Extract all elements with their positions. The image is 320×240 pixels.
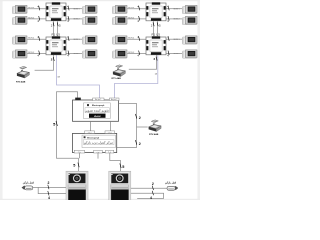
- svg-text:MON 4: MON 4: [28, 7, 34, 9]
- U2 label logo square: [84, 136, 86, 138]
- monitor M1L2 (apartment station): [12, 16, 27, 25]
- tick 4-wire mark left 3-2: [139, 16, 140, 20]
- stub wire below U2 tab a: [78, 153, 80, 158]
- svg-text:MON 2: MON 2: [74, 19, 80, 21]
- monitor M2R1 (apartment station): [82, 36, 97, 45]
- door panel DP1: [66, 171, 88, 200]
- tick 4-wire mark left 1-2: [39, 16, 40, 20]
- power unit P1 (RTV-4AB): [17, 66, 30, 78]
- svg-text:4: 4: [67, 4, 69, 8]
- wire M4L2 to floor box FB4: [127, 52, 146, 54]
- riser wire a between FB1 and FB2: [53, 21, 55, 37]
- svg-text:MON 3: MON 3: [28, 17, 34, 19]
- svg-text:4: 4: [48, 196, 50, 200]
- wire FB2 to power unit P1: [35, 55, 54, 70]
- U2 top tab a: [85, 131, 95, 134]
- svg-text:5: 5: [122, 165, 124, 169]
- tick 2 lower on right drop: [135, 140, 136, 145]
- svg-text:MON 3: MON 3: [128, 52, 134, 54]
- wire M1L1 to floor box FB1: [27, 8, 46, 10]
- tick 5 on left loop: [56, 121, 57, 126]
- svg-text:RTV-4AB: RTV-4AB: [112, 77, 122, 80]
- wire M2R2 to floor box FB2: [66, 52, 82, 54]
- monitor M3R1 (apartment station): [182, 5, 197, 14]
- electric lock L1: [22, 186, 33, 190]
- tick 5 above door panel 2: [120, 163, 121, 168]
- U1 terminal tab 2: [93, 98, 104, 101]
- U2 top tab b: [105, 131, 115, 134]
- tick 4-wire mark right 4-2: [168, 51, 169, 55]
- svg-text:4: 4: [150, 196, 152, 200]
- tick 4 on right loop wire: [152, 191, 153, 195]
- svg-text:MON 2: MON 2: [74, 53, 80, 55]
- wire U1 bottom to U2 tab b: [110, 121, 112, 131]
- stub wire below U2 tab b: [97, 153, 99, 159]
- svg-text:ورودی: ورودی: [87, 132, 91, 134]
- svg-text:4: 4: [67, 35, 69, 39]
- tick on FB4-P2 wire: [156, 57, 157, 61]
- wire M2L2 to floor box FB2: [27, 52, 46, 54]
- wire U1 bottom to U2 tab a: [90, 121, 92, 131]
- riser wire b between FB1 and FB2: [57, 21, 59, 37]
- U1 terminal tab 3: [109, 98, 119, 101]
- svg-text:2: 2: [151, 23, 153, 27]
- lavender riser from FB4 to switcher U1 input 3: [115, 55, 158, 100]
- wire FB4 to power unit P2: [129, 55, 157, 69]
- svg-text:2: 2: [139, 116, 141, 120]
- svg-text:18: 18: [57, 76, 60, 78]
- wire M1R1 to floor box FB1: [66, 8, 82, 10]
- power unit P2 (RTV-4AB): [113, 65, 126, 77]
- monitor M3L2 (apartment station): [112, 16, 127, 25]
- svg-text:MON 4: MON 4: [28, 38, 34, 40]
- U2 product label block: [82, 135, 116, 147]
- wire M1R2 to floor box FB1: [66, 18, 82, 20]
- tick 2 on lock2 wire: [152, 186, 153, 190]
- floor distributor box FB3: [146, 2, 166, 21]
- monitor M1L1 (apartment station): [12, 5, 27, 14]
- tick 4-wire mark left 3-1: [139, 6, 140, 10]
- branch wire to power unit P3: [137, 126, 148, 128]
- monitor M3L1 (apartment station): [112, 5, 127, 14]
- electric lock L2: [167, 186, 178, 190]
- U1 product label block: [84, 103, 111, 119]
- svg-text:4: 4: [137, 54, 139, 58]
- svg-text:5: 5: [53, 122, 56, 127]
- svg-text:MON 2: MON 2: [174, 19, 180, 21]
- svg-text:RTV-4AB: RTV-4AB: [16, 81, 26, 84]
- svg-text:ورودی: ورودی: [108, 132, 112, 134]
- svg-text:4: 4: [37, 54, 39, 58]
- monitor M3R2 (apartment station): [182, 16, 197, 25]
- amplifier unit U2 box: [73, 133, 117, 152]
- wire 4-loop left to DP1: [38, 187, 66, 193]
- tick 4-wire mark right 1-1: [68, 6, 69, 10]
- wire M3L1 to floor box FB3: [127, 8, 146, 10]
- monitor M1R1 (apartment station): [82, 5, 97, 14]
- svg-text:5: 5: [159, 23, 161, 27]
- tick 4-wire mark left 2-1: [39, 36, 40, 40]
- svg-text:F1 L5: F1 L5: [51, 33, 60, 37]
- wire DP2 to lock L2: [131, 187, 167, 189]
- svg-text:MON 3: MON 3: [128, 17, 134, 19]
- door panel DP2: [109, 171, 131, 200]
- power unit P3 (RTV-4AB): [149, 120, 162, 132]
- tick 4-wire mark right 4-1: [168, 36, 169, 40]
- tick on riser a: [153, 22, 154, 26]
- riser wire b between FB3 and FB4: [157, 21, 159, 37]
- svg-text:مرکز کنترل درب بازکن: مرکز کنترل درب بازکن: [84, 141, 114, 145]
- wire M2L1 to floor box FB2: [27, 38, 46, 40]
- svg-text:قفل بازکن: قفل بازکن: [165, 180, 177, 184]
- svg-text:DGHD: DGHD: [94, 116, 101, 118]
- svg-text:14: 14: [155, 74, 158, 76]
- svg-text:F1 L5: F1 L5: [151, 33, 160, 37]
- wire lock L1 to DP1: [33, 186, 66, 188]
- U1 label black model bar: [89, 114, 106, 118]
- tick 4-wire mark left 1-1: [39, 6, 40, 10]
- tick 4-wire mark right 1-2: [68, 16, 69, 20]
- svg-text:Electropeyk: Electropeyk: [92, 104, 105, 107]
- U1 label line2 frame: [85, 108, 109, 113]
- svg-text:MON 4: MON 4: [128, 7, 134, 9]
- monitor M2R2 (apartment station): [82, 50, 97, 59]
- svg-text:Electropeyk: Electropeyk: [87, 136, 100, 139]
- switcher unit U1 box: [73, 100, 119, 121]
- svg-text:4: 4: [137, 19, 139, 23]
- svg-text:2: 2: [51, 58, 53, 62]
- tick 2 upper on right drop: [135, 114, 136, 119]
- wire down to door panel 1: [78, 158, 80, 171]
- wire M1L2 to floor box FB1: [27, 18, 46, 20]
- svg-text:RTV-4AB: RTV-4AB: [149, 133, 159, 136]
- svg-text:MON 1: MON 1: [74, 8, 80, 10]
- svg-text:2: 2: [152, 182, 154, 186]
- monitor M4R1 (apartment station): [182, 36, 197, 45]
- wire M3R1 to floor box FB3: [166, 8, 182, 10]
- U2 bottom tab c: [105, 150, 113, 153]
- monitor M1R2 (apartment station): [82, 16, 97, 25]
- svg-text:2: 2: [139, 142, 141, 146]
- monitor M4L2 (apartment station): [112, 50, 127, 59]
- wire M4R1 to floor box FB4: [166, 38, 182, 40]
- svg-text:تقویم کننده تصویر: تقویم کننده تصویر: [84, 109, 109, 113]
- wire M4R2 to floor box FB4: [166, 52, 182, 54]
- wire M3R2 to floor box FB3: [166, 18, 182, 20]
- svg-text:MON 4: MON 4: [128, 38, 134, 40]
- svg-text:MON 1: MON 1: [74, 39, 80, 41]
- tick 4-wire mark left 2-2: [39, 51, 40, 55]
- monitor M4L1 (apartment station): [112, 36, 127, 45]
- floor distributor box FB2: [46, 36, 66, 55]
- floor distributor box FB1: [46, 2, 66, 21]
- U2 bottom tab b: [94, 150, 103, 153]
- wire 4-loop right from DP2: [131, 193, 164, 198]
- lavender riser from FB2 to switcher U1 input 2: [57, 55, 100, 100]
- tick 4-wire mark left 4-2: [139, 51, 140, 55]
- tick on riser b: [57, 22, 58, 26]
- tick 5 above door panel 1: [78, 163, 79, 168]
- svg-text:2: 2: [154, 57, 156, 61]
- svg-text:قفل بازکن: قفل بازکن: [23, 180, 35, 184]
- U2 label line2 frame: [83, 140, 114, 145]
- tick 4-wire mark right 2-1: [68, 36, 69, 40]
- page edge shading: [0, 0, 3, 200]
- U2 bottom tab a: [74, 150, 84, 153]
- tick on riser b: [157, 22, 158, 26]
- U1 terminal tab dark: [75, 98, 81, 101]
- monitor M2L1 (apartment station): [12, 36, 27, 45]
- wire loop U1 input1 / door feed left: [57, 92, 79, 159]
- tick 4-wire mark right 2-2: [68, 51, 69, 55]
- monitor M2L2 (apartment station): [12, 50, 27, 59]
- tick 4 on left loop wire: [48, 191, 49, 195]
- U1 label logo square: [87, 104, 89, 106]
- svg-text:4: 4: [37, 19, 39, 23]
- svg-text:5: 5: [59, 23, 61, 27]
- riser wire a between FB3 and FB4: [153, 21, 155, 37]
- wire from U1 right to P3 and U2: [117, 104, 137, 148]
- svg-text:2: 2: [51, 23, 53, 27]
- tick on riser a: [53, 22, 54, 26]
- wire M3L2 to floor box FB3: [127, 18, 146, 20]
- svg-text:5: 5: [73, 164, 75, 168]
- monitor M4R2 (apartment station): [182, 50, 197, 59]
- tick 4-wire mark right 3-2: [168, 16, 169, 20]
- floor distributor box FB4: [146, 36, 166, 55]
- svg-text:2: 2: [47, 181, 49, 185]
- wire U2 tab c to door panel 2: [110, 153, 121, 171]
- wire M2R1 to floor box FB2: [66, 38, 82, 40]
- tick 4-wire mark left 4-1: [139, 36, 140, 40]
- svg-text:MON 1: MON 1: [174, 8, 180, 10]
- tick on FB2-P1 wire: [53, 57, 54, 61]
- svg-text:MON 3: MON 3: [28, 52, 34, 54]
- svg-text:MON 1: MON 1: [174, 39, 180, 41]
- tick 2 on lock1 wire: [48, 185, 49, 189]
- tick 4-wire mark right 3-1: [168, 6, 169, 10]
- wire M4L1 to floor box FB4: [127, 38, 146, 40]
- svg-text:MON 2: MON 2: [174, 53, 180, 55]
